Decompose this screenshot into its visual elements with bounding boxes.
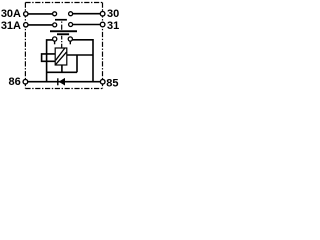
contact bridge bar B: [50, 30, 77, 32]
svg-text:30A: 30A: [1, 8, 21, 20]
svg-text:30: 30: [107, 8, 119, 20]
contact bridge bar A: [55, 19, 67, 21]
wire 31A to contact: [26, 24, 53, 26]
terminal 85: [100, 79, 105, 84]
svg-text:86: 86: [9, 76, 21, 88]
contact circle row2 right: [69, 23, 73, 27]
diode D1 cathode bar: [57, 78, 59, 85]
svg-text:31: 31: [107, 20, 119, 32]
wire inner loop horizontal: [47, 71, 77, 73]
contact bridge bar C: [57, 33, 69, 35]
wire coil right to node: [67, 54, 93, 56]
relay coil K1: [55, 48, 67, 65]
contact circle row3 left: [53, 37, 57, 41]
wire contact to 31: [73, 24, 101, 26]
wire coil bottom stub: [61, 65, 63, 72]
terminal 30A: [24, 12, 28, 16]
terminal 86: [23, 79, 28, 84]
terminal 31: [100, 22, 105, 27]
tick below left NC contact: [54, 42, 56, 45]
wire 30A to contact: [26, 13, 53, 15]
wire NC right contact to right vertical: [73, 40, 94, 82]
contact circle row1 right: [69, 12, 73, 16]
coil diagonal 1: [56, 52, 67, 65]
svg-text:31A: 31A: [1, 20, 21, 32]
diode D1 arrow: [59, 78, 65, 86]
terminal 31A: [24, 23, 28, 27]
svg-text:85: 85: [106, 77, 118, 89]
coil diagonal 2: [56, 48, 65, 60]
contact circle row1 left: [53, 12, 57, 16]
wire coil left U-link: [42, 54, 56, 61]
relay housing dash-dot border: [25, 3, 102, 89]
wire NC left contact to vertical: [47, 40, 53, 82]
terminal 30: [100, 11, 105, 16]
actuation dash-dot link: [61, 22, 63, 31]
wire inner loop vertical: [76, 55, 78, 72]
wire contact to 30: [73, 13, 101, 15]
wire 86 to 85 bottom: [25, 81, 102, 83]
contact circle row3 right: [68, 37, 72, 41]
contact circle row2 left: [53, 23, 57, 27]
tick below right NC contact: [69, 41, 71, 44]
